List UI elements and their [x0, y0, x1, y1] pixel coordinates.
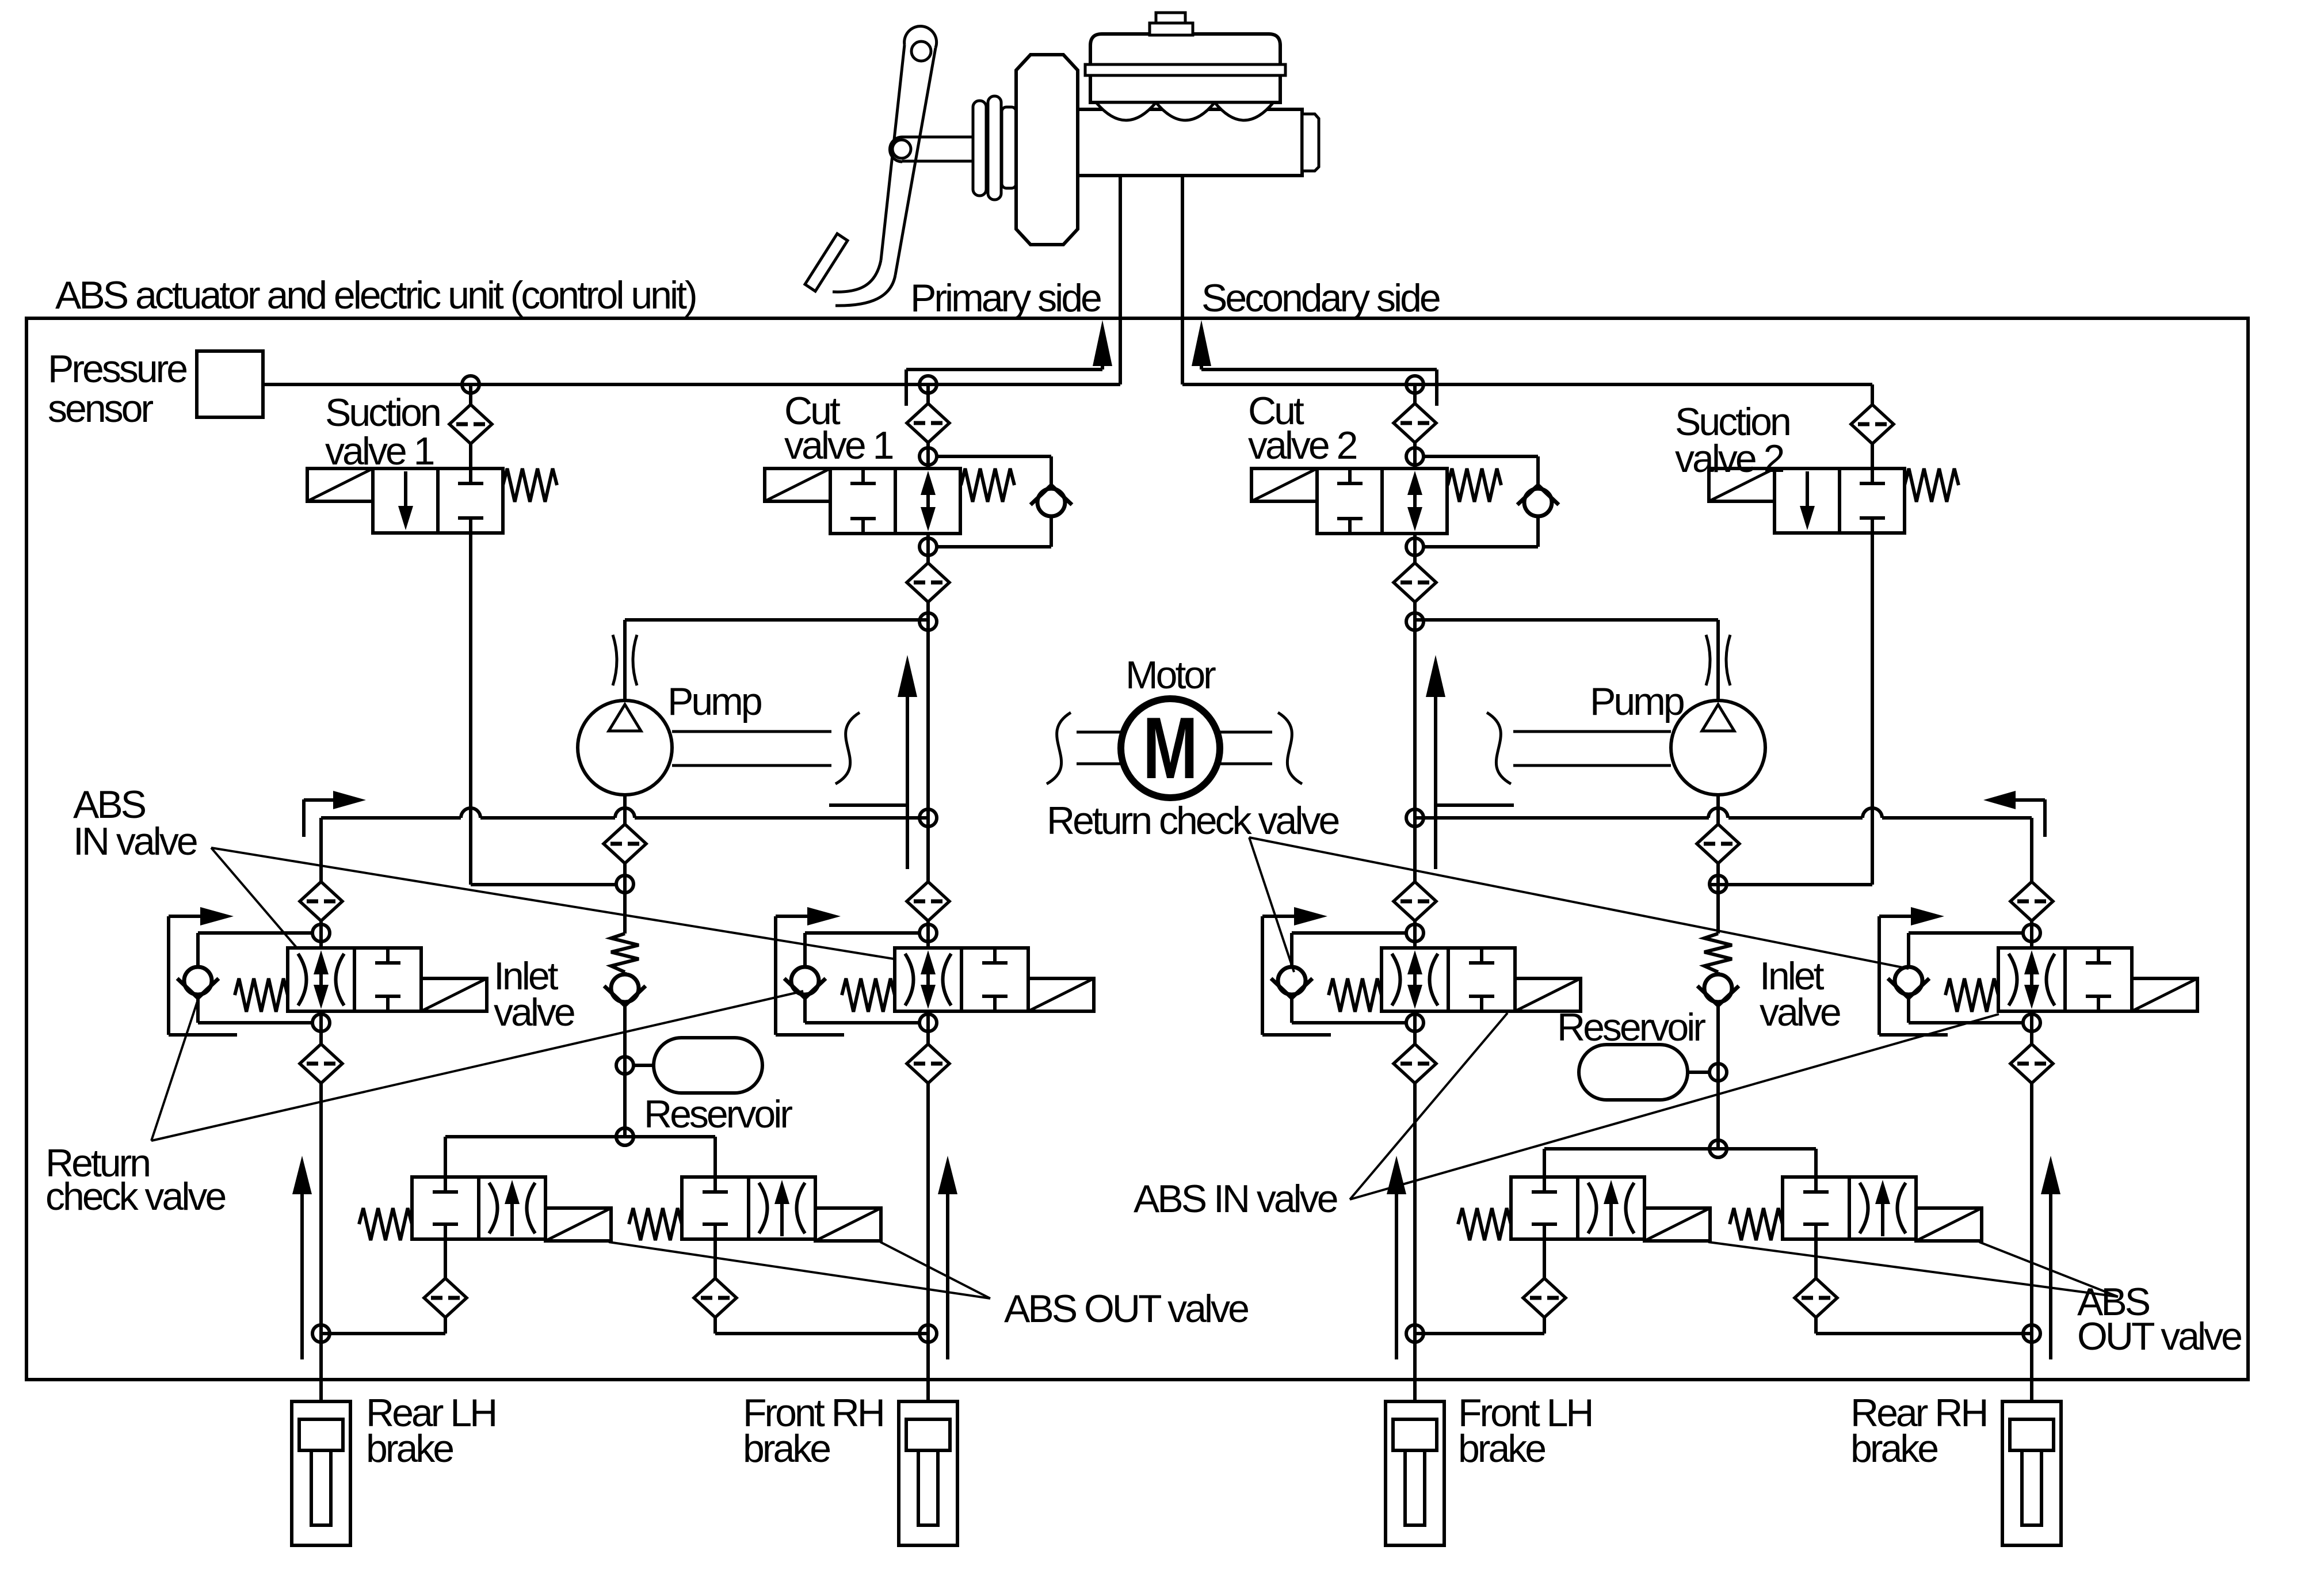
svg-text:OUT valve: OUT valve	[2077, 1315, 2241, 1358]
wire reservoir R connector	[1688, 1071, 1709, 1074]
brake pedal lever	[833, 26, 937, 306]
wire cut valve 1 column	[926, 384, 930, 1401]
wire ABS OUT valve FrontRH riser	[713, 1137, 717, 1177]
wire ABS OUT valve FrontRH to channel	[715, 1332, 928, 1335]
wire cut valve 2 column	[1413, 384, 1417, 1401]
pump R outlet triangle	[1702, 704, 1734, 731]
return line right hop over inlet column	[1708, 808, 1728, 818]
ABS IN valve RearLH bracket	[169, 907, 237, 1035]
node reservoir R	[1709, 1064, 1727, 1081]
wire primary main line	[263, 383, 1120, 386]
filter above ABS IN valve RearRH	[2010, 882, 2053, 921]
motor circle	[1121, 699, 1220, 798]
wire ABS OUT header right	[1544, 1147, 1816, 1151]
node ABS IN valve FrontRH brake junction	[919, 1325, 937, 1342]
reservoir dome 2	[1156, 102, 1215, 120]
ABS IN valve RearLH body	[235, 948, 487, 1012]
node ABS IN valve RearRH bottom	[2023, 1014, 2040, 1031]
booster plate 3	[1002, 107, 1016, 188]
wire suction 1 to inlet junction	[471, 883, 616, 886]
pointer Return check right to RearRH	[1249, 837, 1909, 969]
svg-text:Reservoir: Reservoir	[644, 1092, 792, 1136]
wire ABS OUT valve RearRH riser	[1814, 1149, 1818, 1177]
svg-text:valve: valve	[494, 991, 574, 1034]
ABS OUT valve FrontRH body	[629, 1177, 881, 1241]
filter above cut valve 2	[1394, 403, 1436, 443]
pump L shaft break	[835, 713, 860, 784]
motor shaft left	[1077, 732, 1121, 764]
node ABS IN valve FrontRH top	[919, 924, 937, 942]
filter below cut valve 1	[907, 563, 949, 602]
ABS IN valve FrontLH body	[1329, 948, 1581, 1012]
svg-text:ABS OUT valve: ABS OUT valve	[1004, 1287, 1248, 1331]
wire secondary main line	[1182, 383, 1872, 386]
wire suction valve 2 column	[1871, 384, 1874, 885]
node ABS IN valve FrontLH bottom	[1406, 1014, 1424, 1031]
filter inlet R	[1697, 824, 1739, 863]
filter below ABS IN valve RearRH	[2010, 1044, 2053, 1083]
wire inlet L column lower	[623, 972, 627, 1137]
wire ABS IN valve RearRH channel column	[2030, 818, 2033, 1401]
filter above ABS IN valve RearLH	[300, 882, 342, 921]
ABS OUT valve RearRH body	[1730, 1177, 1982, 1241]
wire primary outlet	[1119, 176, 1122, 384]
pump R coupling arcs	[1706, 635, 1730, 685]
ABS IN valve FrontLH bypass wire	[1292, 933, 1406, 1023]
wire secondary outlet	[1181, 176, 1184, 384]
wire ABS OUT valve RearLH riser	[444, 1137, 447, 1177]
pointer ABS IN right to FrontLH valve	[1350, 1013, 1508, 1199]
wire inlet R column lower	[1716, 972, 1720, 1149]
wire ABS OUT valve FrontLH riser	[1543, 1149, 1546, 1177]
node cut valve 2 top	[1406, 376, 1424, 393]
filter above ABS IN valve FrontRH	[907, 882, 949, 921]
label Reservoir L	[644, 1092, 792, 1136]
filter below ABS OUT valve RearRH	[1795, 1278, 1837, 1317]
node ABS IN valve FrontLH top	[1406, 924, 1424, 942]
label ABS OUT valve left	[1004, 1287, 1248, 1331]
wire ABS OUT valve FrontLH drop	[1543, 1239, 1546, 1334]
pump R circle	[1671, 700, 1765, 795]
node cut valve 2 pump junction	[1406, 613, 1424, 630]
svg-text:sensor: sensor	[48, 387, 153, 431]
svg-text:valve 2: valve 2	[1675, 437, 1784, 481]
label Reservoir R	[1557, 1005, 1705, 1049]
pointer ABS OUT left to RearLH	[609, 1242, 990, 1298]
inlet valve L spring	[611, 934, 639, 972]
wire ABS OUT valve RearLH to channel	[321, 1332, 445, 1335]
return check valve of ABS IN valve FrontRH	[784, 967, 826, 998]
pump R shaft break	[1487, 713, 1511, 784]
cut valve 2 bypass check valve	[1517, 485, 1559, 516]
label Rear RH brake	[1850, 1391, 1987, 1471]
flow arrow return right bracket	[1983, 791, 2045, 837]
node ABS IN valve RearLH bottom	[312, 1014, 330, 1031]
svg-text:brake: brake	[1458, 1427, 1545, 1471]
pointer ABS IN right to RearRH valve	[1350, 1014, 1999, 1199]
label Secondary side	[1201, 276, 1440, 320]
flow arrow return left bracket	[304, 791, 366, 837]
return check valve of ABS IN valve RearRH	[1888, 967, 1929, 998]
node ABS OUT header right	[1709, 1140, 1727, 1157]
svg-text:Secondary side: Secondary side	[1201, 276, 1440, 320]
wire ABS OUT valve FrontRH drop	[713, 1239, 717, 1334]
node reservoir L	[616, 1057, 634, 1074]
filter above suction valve 1	[449, 405, 492, 444]
return line left hop over inlet column	[615, 808, 635, 818]
ABS IN valve FrontRH bypass wire	[805, 933, 919, 1023]
svg-text:M: M	[1143, 699, 1198, 797]
booster plate 2	[988, 96, 1001, 200]
filter above cut valve 1	[907, 403, 949, 443]
reservoir filler cap	[1150, 13, 1193, 35]
ABS IN valve RearRH bracket	[1879, 907, 1948, 1035]
reservoir dome 3	[1215, 102, 1273, 120]
ABS IN valve FrontRH bracket	[776, 907, 844, 1035]
inlet valve R check	[1697, 974, 1739, 1005]
cut valve 1 body	[765, 468, 1014, 534]
label Return check valve right	[1047, 799, 1338, 843]
ABS IN valve RearRH bypass wire	[1909, 933, 2022, 1023]
ABS IN valve FrontRH body	[842, 948, 1094, 1012]
svg-text:Motor: Motor	[1125, 653, 1216, 697]
flow arrow primary to master cylinder	[906, 320, 1112, 406]
filter below ABS IN valve FrontLH	[1394, 1044, 1436, 1083]
label Pump L	[667, 680, 761, 723]
wire ABS OUT valve RearLH drop	[444, 1239, 447, 1334]
ABS OUT valve FrontLH body	[1458, 1177, 1710, 1241]
Rear RH brake cylinder	[2002, 1401, 2061, 1545]
filter below ABS OUT valve FrontRH	[694, 1278, 736, 1317]
svg-text:brake: brake	[743, 1427, 830, 1471]
pointer Return check left to RearLH	[151, 1000, 198, 1141]
suction valve 1 body	[307, 468, 557, 533]
pointer Return check right to FrontLH	[1249, 837, 1294, 972]
ABS actuator unit enclosure border	[26, 318, 2248, 1380]
pump L drive shaft	[672, 732, 831, 765]
ABS OUT valve RearLH body	[359, 1177, 611, 1241]
node cut valve 2 inlet	[1406, 448, 1424, 465]
booster plate 1	[973, 101, 986, 196]
filter above suction valve 2	[1851, 405, 1894, 444]
filter inlet L	[604, 824, 646, 863]
label cut valve 2	[1248, 389, 1357, 467]
reservoir R capsule	[1579, 1045, 1688, 1100]
label Suction valve 2	[1675, 400, 1789, 481]
node ABS OUT feed L	[616, 1128, 634, 1145]
node ABS OUT feed R	[1709, 1140, 1727, 1157]
wire pump R top elbow	[1415, 620, 1718, 700]
label ABS IN valve right	[1134, 1177, 1337, 1221]
node return left at cut valve 1	[919, 809, 937, 826]
node ABS IN valve RearLH top	[312, 924, 330, 942]
flow arrow Rear LH channel	[292, 1156, 312, 1359]
pressure sensor box	[197, 351, 263, 417]
return check valve of ABS IN valve FrontLH	[1271, 967, 1312, 998]
pedal clevis pin	[890, 137, 911, 162]
wire ABS OUT valve FrontLH to channel	[1415, 1332, 1544, 1335]
svg-text:brake: brake	[366, 1427, 453, 1471]
filter below ABS OUT valve FrontLH	[1523, 1278, 1566, 1317]
filter below cut valve 2	[1394, 563, 1436, 602]
node ABS IN valve RearRH top	[2023, 924, 2040, 942]
label Primary side	[910, 276, 1101, 320]
ABS IN valve RearLH bypass wire	[198, 933, 312, 1023]
label Front LH brake	[1458, 1391, 1592, 1471]
label Return check valve left	[45, 1141, 225, 1218]
pump L coupling arcs	[613, 635, 637, 685]
svg-text:Return check valve: Return check valve	[1047, 799, 1338, 843]
reservoir dome 1	[1096, 102, 1156, 120]
cut valve 2 body	[1251, 468, 1501, 534]
svg-text:Pump: Pump	[1590, 680, 1684, 723]
pointer ABS IN left to FrontRH valve	[211, 848, 894, 959]
reservoir L capsule	[654, 1038, 762, 1093]
flow arrow up to cut valve 1	[829, 655, 917, 869]
label Suction valve 1	[325, 391, 440, 473]
pump L outlet triangle	[609, 704, 641, 731]
svg-text:valve 1: valve 1	[784, 424, 893, 467]
svg-text:Pressure: Pressure	[48, 347, 186, 391]
svg-text:ABS actuator and electric unit: ABS actuator and electric unit (control …	[55, 273, 696, 317]
cut valve 1 bypass check valve	[1031, 485, 1072, 516]
svg-text:valve: valve	[1760, 991, 1840, 1034]
vacuum booster body	[1016, 55, 1078, 245]
svg-text:valve 1: valve 1	[325, 429, 434, 473]
label Front RH brake	[743, 1391, 883, 1471]
pump L circle	[578, 700, 672, 795]
pointer ABS IN left to RearLH valve	[211, 848, 297, 948]
cut valve 2 bypass wire	[1424, 456, 1538, 547]
label Rear LH brake	[366, 1391, 495, 1471]
label ABS IN valve left	[73, 783, 197, 863]
ABS IN valve RearRH body	[1945, 948, 2197, 1012]
filter below ABS IN valve RearLH	[300, 1044, 342, 1083]
label Inlet valve L	[494, 954, 574, 1034]
node ABS IN valve FrontLH brake junction	[1406, 1325, 1424, 1342]
wire return line left	[321, 816, 928, 820]
node return right at cut valve 2	[1406, 809, 1424, 826]
node cut valve 1 outlet	[919, 538, 937, 555]
wire inlet R column upper	[1716, 795, 1720, 934]
node ABS OUT header left	[616, 1128, 634, 1145]
suction valve 2 body	[1709, 468, 1959, 533]
motor shaft right break	[1278, 713, 1302, 784]
node cut valve 2 outlet	[1406, 538, 1424, 555]
label cut valve 1	[784, 389, 893, 467]
cut valve 1 bypass wire	[937, 456, 1051, 547]
node ABS IN valve RearLH brake junction	[312, 1325, 330, 1342]
master cylinder body	[1078, 109, 1302, 176]
pump R drive shaft	[1513, 732, 1671, 765]
pointer ABS OUT left to FrontRH	[880, 1242, 990, 1298]
filter below ABS IN valve FrontRH	[907, 1044, 949, 1083]
flow arrow Rear RH channel	[2041, 1156, 2060, 1359]
wire return line right	[1415, 816, 2032, 820]
node inlet R	[1709, 875, 1727, 893]
label Pressure sensor	[48, 347, 186, 431]
wire reservoir L connector	[634, 1064, 654, 1067]
node cut valve 1 inlet	[919, 448, 937, 465]
fluid reservoir tank	[1090, 34, 1280, 102]
flow arrow up to cut valve 2	[1426, 655, 1514, 869]
title text	[55, 273, 696, 317]
wire suction valve 1 column	[469, 384, 472, 885]
flow arrow secondary to master cylinder	[1192, 320, 1437, 406]
flow arrow Front LH channel	[1387, 1156, 1406, 1359]
wire ABS OUT valve RearRH to channel	[1816, 1332, 2032, 1335]
svg-text:valve 2: valve 2	[1248, 424, 1357, 467]
flow arrow Front RH channel	[938, 1156, 957, 1359]
wire ABS IN valve RearLH channel column	[319, 818, 323, 1401]
motor shaft right	[1220, 732, 1272, 764]
svg-text:Pump: Pump	[667, 680, 761, 723]
node cut valve 1 pump junction	[919, 613, 937, 630]
label Motor	[1125, 653, 1216, 697]
svg-text:IN valve: IN valve	[73, 820, 197, 863]
brake pedal pad	[805, 234, 848, 291]
return check valve of ABS IN valve RearLH	[177, 967, 219, 998]
node cut valve 1 top	[919, 376, 937, 393]
svg-text:Suction: Suction	[325, 391, 440, 435]
master cylinder end cap	[1302, 114, 1319, 171]
pedal pivot bushing	[911, 41, 931, 61]
svg-text:Primary side: Primary side	[910, 276, 1101, 320]
node inlet L	[616, 875, 634, 893]
ABS IN valve FrontLH bracket	[1262, 907, 1331, 1035]
node suction valve 1 top	[462, 376, 479, 393]
wire suction 2 to inlet junction	[1709, 883, 1872, 886]
label Pump R	[1590, 680, 1684, 723]
Front RH brake cylinder	[899, 1401, 957, 1545]
inlet valve L check	[604, 974, 646, 1005]
node ABS IN valve RearRH brake junction	[2023, 1325, 2040, 1342]
svg-text:ABS IN valve: ABS IN valve	[1134, 1177, 1337, 1221]
label Inlet valve R	[1760, 954, 1840, 1034]
Front LH brake cylinder	[1386, 1401, 1444, 1545]
filter above ABS IN valve FrontLH	[1394, 882, 1436, 921]
pointer Return check left to FrontRH	[151, 991, 803, 1141]
node ABS IN valve FrontRH bottom	[919, 1014, 937, 1031]
wire inlet L column upper	[623, 795, 627, 934]
return line right hop over suction column	[1863, 808, 1882, 818]
inlet valve R spring	[1704, 934, 1732, 972]
pointer ABS OUT right to FrontLH	[1708, 1242, 2118, 1297]
motor shaft left break	[1047, 713, 1071, 784]
booster push rod	[902, 137, 974, 161]
label ABS OUT valve right	[2077, 1280, 2241, 1358]
wire pump L top elbow	[625, 620, 928, 700]
motor M letter	[1143, 699, 1198, 797]
svg-text:check valve: check valve	[45, 1175, 225, 1218]
Rear LH brake cylinder	[292, 1401, 350, 1545]
return line left hop over suction column	[461, 808, 480, 818]
pointer ABS OUT right to RearRH	[1979, 1242, 2118, 1297]
reservoir collar band	[1085, 64, 1285, 75]
svg-text:brake: brake	[1850, 1427, 1937, 1471]
wire ABS OUT header left	[445, 1135, 715, 1138]
wire ABS OUT valve RearRH drop	[1814, 1239, 1818, 1334]
filter below ABS OUT valve RearLH	[424, 1278, 467, 1317]
